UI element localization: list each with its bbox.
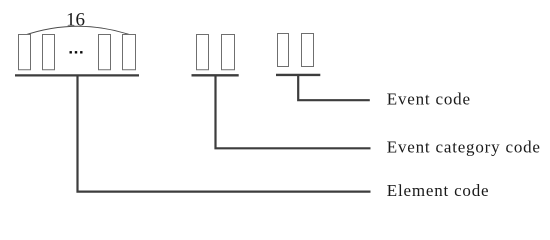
event category base line bbox=[192, 74, 239, 76]
event code base line bbox=[276, 74, 320, 76]
digit box 2 of event category field bbox=[222, 35, 235, 70]
brace arc over digit group bbox=[24, 26, 132, 35]
svg-text:Event category code: Event category code bbox=[387, 137, 541, 156]
event category connector bbox=[216, 75, 371, 148]
digit box 2 of element code field bbox=[43, 35, 55, 70]
digit box 1 of element code field bbox=[19, 35, 31, 70]
svg-text:16: 16 bbox=[66, 10, 85, 31]
digit box 2 of event code field bbox=[302, 34, 314, 67]
digit box 4 of element code field bbox=[123, 35, 136, 70]
element code connector bbox=[78, 75, 371, 191]
element code base line bbox=[15, 74, 139, 76]
digit box 1 of event code field bbox=[278, 34, 289, 67]
event code connector bbox=[298, 75, 370, 100]
svg-text:Event code: Event code bbox=[387, 89, 471, 108]
digit box 1 of event category field bbox=[197, 35, 209, 70]
digit box 3 of element code field bbox=[99, 35, 111, 70]
ellipsis dots bbox=[70, 51, 83, 53]
svg-text:Element code: Element code bbox=[387, 181, 490, 200]
